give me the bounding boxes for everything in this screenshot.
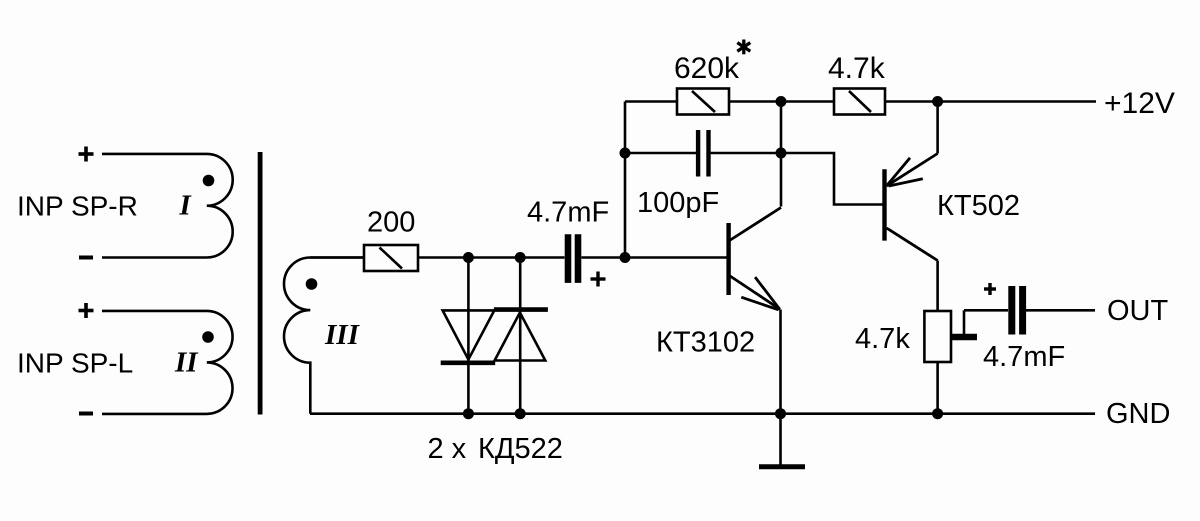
plus terminal winding II <box>79 303 94 318</box>
junction dots <box>463 96 943 419</box>
resistor R 620k <box>677 89 729 115</box>
capacitor C 100pF <box>698 130 708 177</box>
wire: main row winding III to cap <box>310 256 565 259</box>
svg-text:КД522: КД522 <box>478 433 563 465</box>
ground symbol <box>759 414 805 467</box>
resistor R 200 <box>364 245 418 271</box>
winding I <box>102 154 233 258</box>
wire: 100pF row right <box>711 152 781 155</box>
wire: KT502 collector vertical to pot and GND <box>936 261 939 414</box>
svg-text:4.7k: 4.7k <box>828 52 886 85</box>
wire: feedback left vertical <box>624 102 627 258</box>
svg-text:OUT: OUT <box>1107 295 1169 327</box>
capacitor C 4.7mF input <box>568 234 578 283</box>
svg-text:II: II <box>174 347 199 379</box>
potentiometer 4.7k body <box>924 311 951 362</box>
capacitor C 4.7mF output <box>1012 286 1023 335</box>
plus terminal winding I <box>79 147 94 162</box>
potentiometer wiper tap <box>950 310 977 340</box>
wire: diode branch left vertical <box>467 258 470 414</box>
wire: GND rail <box>310 412 1095 415</box>
svg-text:КТ3102: КТ3102 <box>656 327 755 359</box>
svg-text:КТ502: КТ502 <box>937 190 1020 222</box>
wire: collector vertical x781 <box>780 102 783 207</box>
winding I phase dot <box>203 175 215 187</box>
plus sign of input cap <box>591 272 606 287</box>
svg-text:4.7k: 4.7k <box>855 323 910 355</box>
transistor Q1 KT3102 <box>729 208 781 310</box>
resistor R 4.7k top <box>834 89 885 115</box>
wire: KT502 base path <box>781 153 884 205</box>
wire: diode branch right vertical <box>519 258 522 414</box>
svg-text:4.7mF: 4.7mF <box>983 341 1065 373</box>
wire: KT3102 emitter vertical <box>779 310 782 414</box>
svg-text:620k: 620k <box>674 52 740 85</box>
wire: top +12V rail <box>625 100 1096 103</box>
label asterisk <box>737 40 750 55</box>
diode VD1 <box>441 310 496 362</box>
svg-text:100pF: 100pF <box>637 187 719 219</box>
winding III phase dot <box>306 278 318 290</box>
plus sign of output cap <box>984 283 996 295</box>
svg-text:2 x: 2 x <box>428 433 467 465</box>
transistor Q2 KT502 <box>885 154 938 261</box>
svg-text:4.7mF: 4.7mF <box>527 197 609 229</box>
wire: 100pF row left <box>625 152 696 155</box>
minus terminal winding I <box>79 256 93 260</box>
winding III <box>284 258 365 414</box>
winding II <box>102 311 233 414</box>
svg-text:GND: GND <box>1106 398 1170 430</box>
wire: OUT row left <box>964 309 1008 312</box>
wire: main row cap to KT3102 base <box>581 256 727 259</box>
minus terminal winding II <box>79 412 93 416</box>
svg-text:I: I <box>179 190 193 222</box>
svg-text:INP SP-L: INP SP-L <box>17 348 133 379</box>
svg-text:III: III <box>324 319 361 351</box>
wire: OUT row right <box>1026 309 1095 312</box>
svg-text:200: 200 <box>367 207 415 239</box>
wire: KT502 emitter vertical <box>936 102 939 154</box>
svg-text:INP SP-R: INP SP-R <box>17 191 138 222</box>
transformer core <box>258 152 263 415</box>
svg-text:+12V: +12V <box>1104 87 1175 120</box>
winding II phase dot <box>202 331 214 343</box>
diode VD2 <box>494 310 548 361</box>
